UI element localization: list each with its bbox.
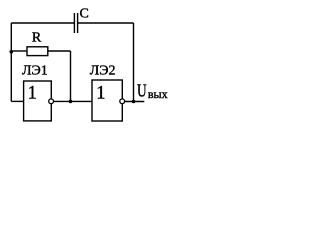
junction node B dot — [69, 100, 73, 104]
svg-text:вых: вых — [148, 87, 168, 101]
junction node A dot — [10, 50, 14, 54]
wire left vertical (node A: input of LE1) — [10, 23, 12, 101]
svg-text:ЛЭ1: ЛЭ1 — [22, 64, 48, 79]
wire LE1 input — [11, 100, 23, 102]
svg-text:R: R — [32, 31, 42, 46]
logic element LE2 box — [92, 80, 122, 121]
wire resistor right stub — [48, 50, 71, 52]
junction node output dot — [132, 100, 136, 104]
svg-text:1: 1 — [28, 83, 37, 103]
capacitor C plates — [74, 13, 77, 33]
wire top-right segment (capacitor to right vertical) — [78, 22, 134, 24]
svg-text:U: U — [137, 81, 147, 101]
wire inter-stage (node B: LE1 out to LE2 in) — [54, 100, 92, 102]
resistor R body — [27, 47, 48, 56]
logic element LE1 box — [24, 81, 52, 121]
wire output (LE2 out to terminal) — [125, 101, 144, 103]
svg-text:ЛЭ2: ЛЭ2 — [90, 64, 116, 79]
wire top-left segment (node A to capacitor) — [11, 22, 74, 24]
inversion bubble LE2 — [120, 99, 125, 104]
svg-text:1: 1 — [96, 83, 105, 103]
svg-text:C: C — [80, 6, 89, 21]
wire resistor left stub — [11, 50, 27, 52]
inversion bubble LE1 — [49, 99, 54, 104]
wire feedback vertical (R to node B) — [70, 51, 72, 101]
wire right vertical (LE2 output to capacitor) — [133, 23, 135, 102]
